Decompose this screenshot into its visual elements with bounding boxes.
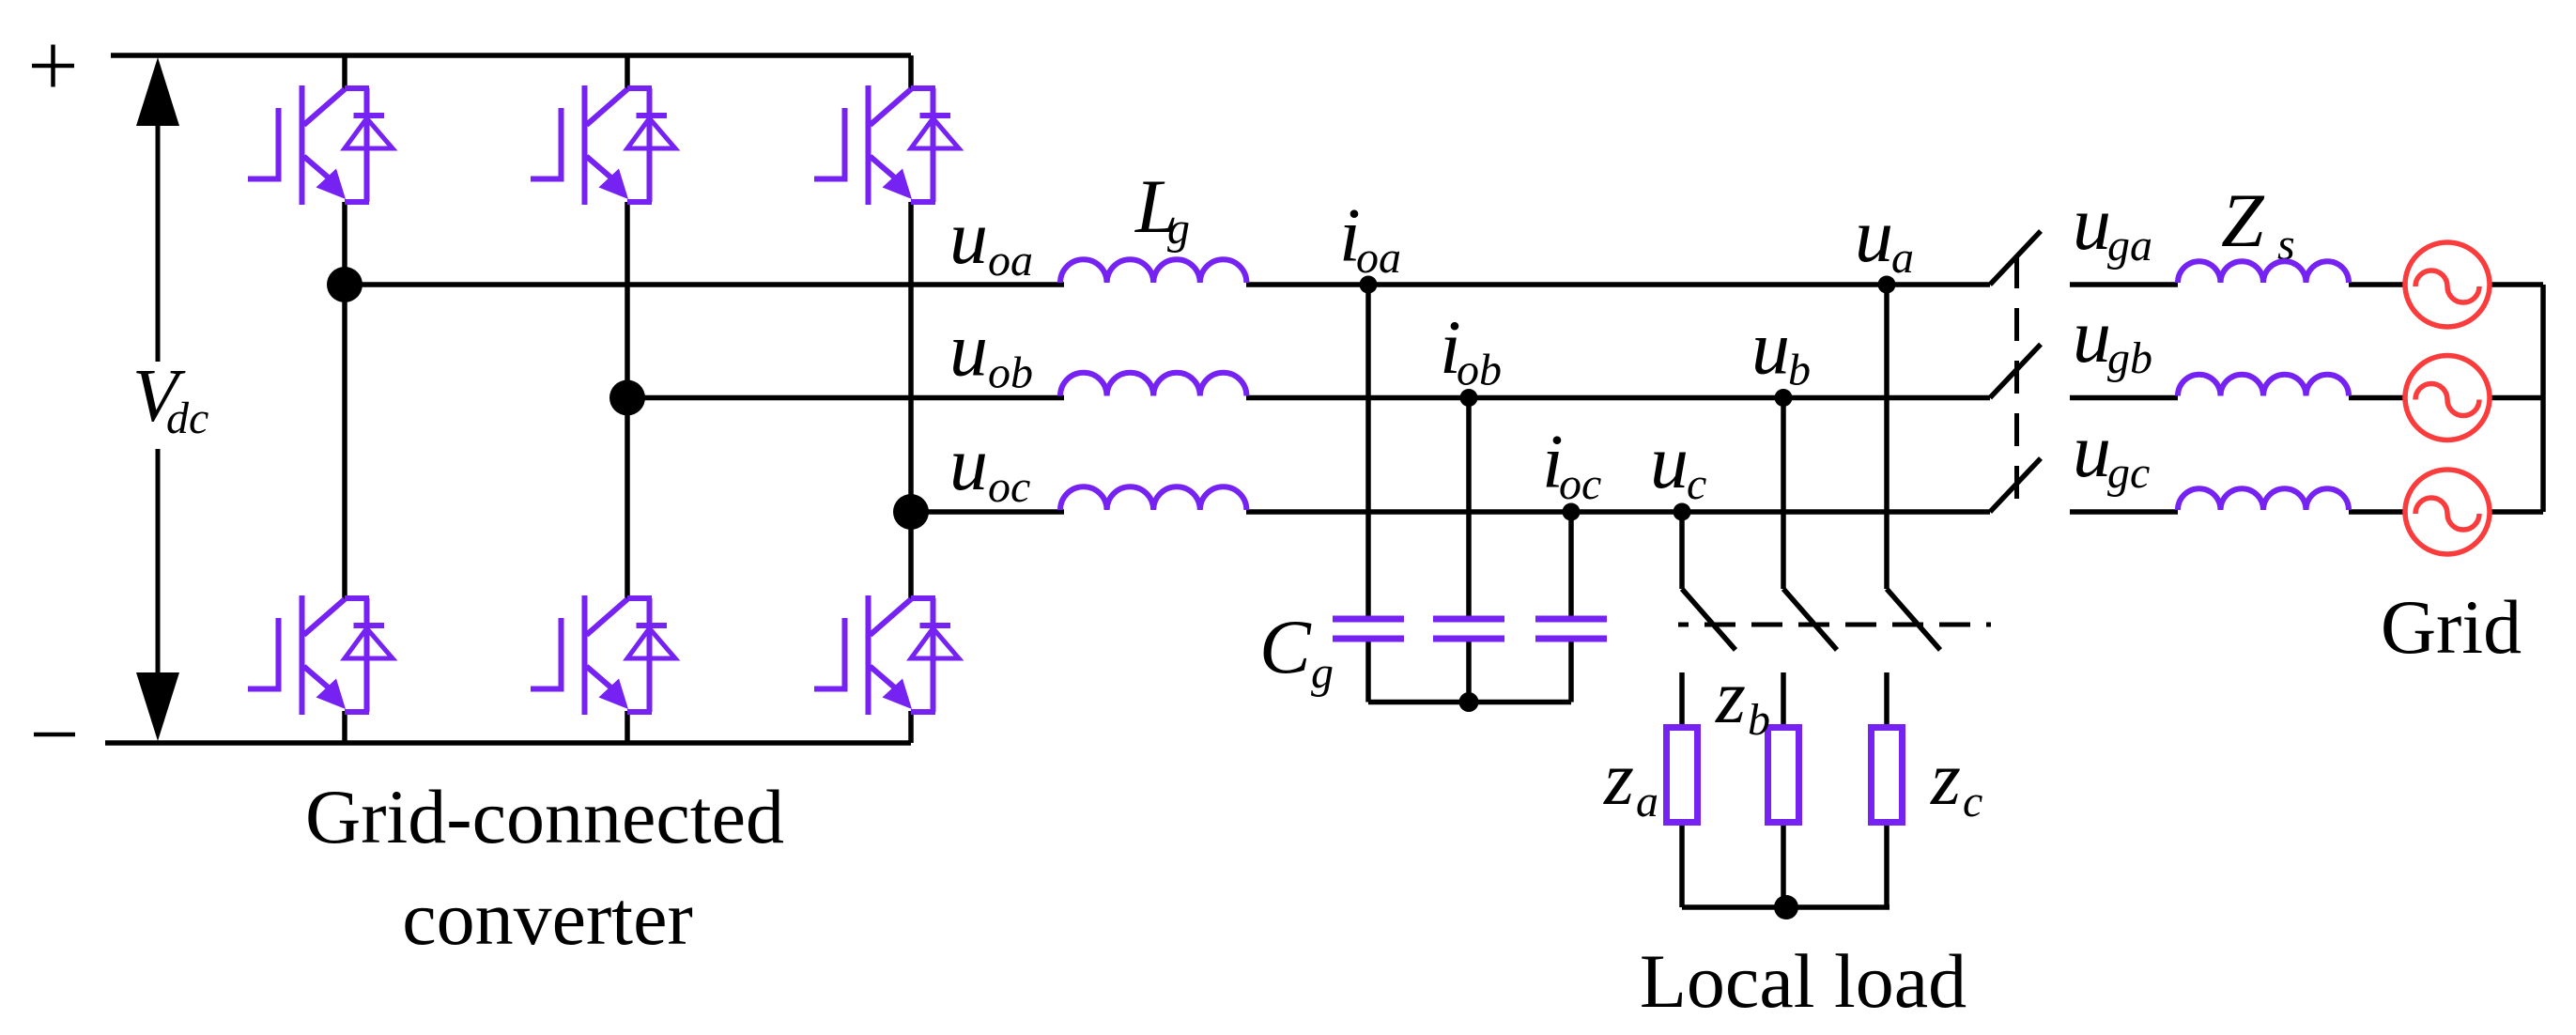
switch S4 (load, phase c) bbox=[1682, 589, 1735, 650]
svg-text:u: u bbox=[1751, 305, 1790, 391]
resistor za bbox=[1667, 728, 1698, 823]
svg-text:Z: Z bbox=[2221, 178, 2265, 263]
svg-text:b: b bbox=[1788, 346, 1811, 395]
label iob bbox=[1440, 304, 1502, 395]
node a dot (leg a midpoint) bbox=[327, 267, 362, 302]
wire load stub a bbox=[1884, 672, 1890, 907]
label ugb bbox=[2073, 293, 2152, 383]
resistor zc bbox=[1872, 728, 1903, 823]
svg-text:ob: ob bbox=[1457, 346, 1502, 395]
svg-text:u: u bbox=[2073, 293, 2111, 378]
svg-text:gc: gc bbox=[2107, 448, 2150, 498]
wire ua dropper bbox=[1884, 285, 1890, 589]
label uoa bbox=[949, 194, 1033, 286]
svg-text:u: u bbox=[949, 421, 988, 506]
wire iob dropper bbox=[1466, 398, 1472, 616]
inductor Lg phase a bbox=[1060, 259, 1246, 283]
node load star dot bbox=[1774, 895, 1798, 919]
svg-text:c: c bbox=[1963, 777, 1982, 826]
node c dot (leg c midpoint) bbox=[893, 494, 929, 530]
wire ub dropper bbox=[1781, 398, 1786, 590]
svg-text:u: u bbox=[1650, 419, 1689, 504]
label Zs bbox=[2221, 178, 2295, 270]
svg-text:u: u bbox=[2073, 408, 2111, 493]
label zb bbox=[1715, 654, 1770, 745]
DC bus + rail bbox=[111, 53, 911, 58]
label uoc bbox=[949, 421, 1030, 512]
inductor Lg phase b bbox=[1060, 373, 1246, 396]
capacitor Cg phase c bbox=[1535, 619, 1607, 639]
switch S6 (load, phase a) bbox=[1887, 589, 1940, 650]
svg-text:Local load: Local load bbox=[1640, 938, 1967, 1024]
svg-text:Grid: Grid bbox=[2381, 584, 2522, 670]
svg-text:oa: oa bbox=[988, 236, 1033, 286]
label ioa bbox=[1339, 193, 1401, 284]
IGBT Q6 (bottom, leg c) bbox=[814, 595, 959, 715]
IGBT Q1 (top, leg a) bbox=[248, 85, 393, 205]
label Cg bbox=[1259, 604, 1334, 698]
wire load bottom bus bbox=[1682, 904, 1890, 910]
wire grid right bus bbox=[2540, 285, 2546, 512]
AC source phase b bbox=[2405, 356, 2490, 440]
label ioc bbox=[1542, 419, 1601, 510]
phase a output wire bbox=[345, 282, 1990, 287]
svg-text:u: u bbox=[949, 307, 988, 393]
plus sign bbox=[32, 45, 74, 87]
label ub bbox=[1751, 305, 1811, 395]
svg-text:converter: converter bbox=[402, 875, 693, 961]
capacitor Cg phase b bbox=[1433, 619, 1504, 639]
wire capacitor bottom bus bbox=[1368, 642, 1571, 703]
label uc bbox=[1650, 419, 1706, 509]
converter leg b wire bbox=[625, 55, 630, 743]
inductor Zs phase c bbox=[2178, 488, 2349, 510]
node ioa dot bbox=[1360, 276, 1378, 294]
switch S5 (load, phase b) bbox=[1783, 589, 1837, 650]
svg-text:oc: oc bbox=[1559, 459, 1601, 509]
IGBT Q3 (top, leg c) bbox=[814, 85, 959, 205]
svg-text:ob: ob bbox=[988, 348, 1033, 398]
label ua bbox=[1855, 193, 1914, 283]
AC source phase c bbox=[2405, 470, 2490, 554]
node iob dot bbox=[1460, 389, 1478, 407]
IGBT Q2 (top, leg b) bbox=[531, 85, 675, 205]
IGBT Q4 (bottom, leg a) bbox=[248, 595, 393, 715]
switch S1 (grid, phase a) bbox=[1990, 231, 2041, 285]
label uga bbox=[2073, 180, 2152, 270]
capacitor Cg phase a bbox=[1333, 619, 1404, 639]
svg-text:u: u bbox=[949, 194, 988, 280]
wire load stub b bbox=[1781, 672, 1786, 907]
inductor Lg phase c bbox=[1060, 487, 1246, 510]
converter leg c wire bbox=[908, 55, 914, 743]
wire ioc dropper bbox=[1568, 512, 1574, 616]
wire grid phase b bbox=[2070, 395, 2543, 401]
node ioc dot bbox=[1563, 503, 1581, 521]
label ugc bbox=[2073, 408, 2150, 498]
node capacitor star dot bbox=[1459, 692, 1479, 712]
node ua dot bbox=[1878, 276, 1896, 294]
label Vdc bbox=[132, 355, 208, 443]
node b dot (leg b midpoint) bbox=[609, 380, 645, 416]
svg-text:z: z bbox=[1715, 654, 1746, 739]
svg-text:ga: ga bbox=[2107, 221, 2152, 270]
node ub dot bbox=[1775, 389, 1793, 407]
inductor Zs phase a bbox=[2178, 261, 2349, 283]
svg-text:Grid-connected: Grid-connected bbox=[305, 774, 784, 859]
svg-text:z: z bbox=[1603, 735, 1634, 821]
svg-text:C: C bbox=[1259, 604, 1312, 689]
wire ioa dropper bbox=[1365, 285, 1371, 616]
svg-text:oa: oa bbox=[1356, 233, 1401, 283]
svg-text:a: a bbox=[1636, 777, 1658, 826]
phase b output wire bbox=[627, 395, 1990, 401]
label zc bbox=[1930, 735, 1982, 826]
svg-text:gb: gb bbox=[2107, 333, 2152, 383]
svg-text:b: b bbox=[1748, 695, 1770, 745]
wire uc dropper bbox=[1679, 512, 1685, 589]
dashed gang link (load switches) bbox=[1678, 623, 1991, 627]
svg-text:z: z bbox=[1930, 735, 1961, 821]
svg-text:oc: oc bbox=[988, 462, 1030, 512]
svg-text:u: u bbox=[1855, 193, 1893, 278]
phase c output wire bbox=[911, 509, 1990, 515]
wire load stub c bbox=[1679, 672, 1685, 907]
dashed gang link (grid switch) bbox=[2014, 255, 2019, 518]
label uob bbox=[949, 307, 1033, 398]
minus sign bbox=[34, 733, 75, 737]
converter leg a wire bbox=[342, 55, 347, 743]
label za bbox=[1603, 735, 1658, 826]
svg-text:g: g bbox=[1311, 648, 1334, 698]
switch S2 (grid, phase b) bbox=[1990, 345, 2041, 398]
AC source phase a bbox=[2405, 242, 2490, 327]
inductor Zs phase b bbox=[2178, 375, 2349, 396]
svg-text:a: a bbox=[1891, 233, 1914, 283]
svg-text:dc: dc bbox=[166, 394, 208, 443]
node uc dot bbox=[1674, 503, 1691, 521]
wire grid phase a bbox=[2070, 282, 2543, 287]
Vdc dimension arrow bbox=[136, 57, 179, 741]
resistor zb bbox=[1768, 728, 1799, 823]
svg-text:c: c bbox=[1687, 459, 1706, 509]
switch S3 (grid, phase c) bbox=[1990, 458, 2041, 512]
DC bus - rail bbox=[105, 740, 911, 746]
IGBT Q5 (bottom, leg b) bbox=[531, 595, 675, 715]
label Lg bbox=[1134, 163, 1190, 254]
svg-text:g: g bbox=[1167, 204, 1190, 254]
svg-text:u: u bbox=[2073, 180, 2111, 266]
wire grid phase c bbox=[2070, 509, 2543, 515]
